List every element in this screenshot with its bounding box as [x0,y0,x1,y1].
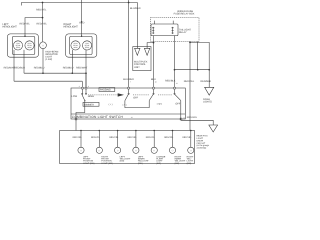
pin square low [81,87,83,89]
svg-text:RED/BLU: RED/BLU [34,67,45,70]
svg-text:RED/BLU: RED/BLU [14,67,25,70]
light switch 3 blade [175,94,181,100]
svg-text:LIGHT (5W): LIGHT (5W) [101,162,113,165]
lamp 7 right taillight [190,131,192,148]
pin square high [85,87,87,89]
wire: drop to LOW contact [81,81,83,93]
svg-text:OFF: OFF [133,97,138,100]
passing arrow [118,93,124,96]
svg-text:HEADLIGHT: HEADLIGHT [64,26,79,29]
wire: relay output BLU down [153,36,155,94]
svg-text:(5W): (5W) [120,160,125,163]
svg-text:(5W): (5W) [175,162,180,165]
rear fog arrow [209,125,218,132]
wire: vertical to high-beam indicator [42,3,44,42]
node: bus on relay RED/BLK wire [174,69,176,71]
light switch 2 contact [153,93,154,94]
svg-text:(5W): (5W) [156,162,161,165]
linkage dashed sw1-sw2 [133,94,149,96]
svg-text:BLU/RED: BLU/RED [123,78,134,81]
taillight assembly box [60,131,195,164]
node: high bus on right low wire [85,72,87,74]
under-dash fuse/relay box dashed outline [151,18,200,42]
lamp group [73,130,95,165]
svg-text:(5W): (5W) [187,162,192,165]
PASSING position label box [99,88,115,92]
svg-text:RELAY: RELAY [179,31,187,34]
wire: switch 3 common to rear fog exit [180,101,182,121]
svg-text:RED/YEL: RED/YEL [128,136,138,139]
pin square fog exit [180,118,182,120]
multiplex control unit box [133,47,151,71]
dash lights arrow [205,87,214,95]
dimmer switch: HIGH contact [85,93,86,94]
bulb: left low beam 55W [13,41,22,50]
svg-text:LOW: LOW [72,95,78,98]
lamp 1 left front position light [80,131,82,148]
left headlight bulb housing [12,36,34,54]
switch 1-2 common link [125,101,149,108]
svg-text:DIMMER: DIMMER [84,103,94,106]
wire: rear fog feed [181,120,213,125]
node: terminal on right headlight feed [81,21,82,22]
left headlight outer case [7,34,38,57]
svg-text:RED/WHT: RED/WHT [76,67,88,70]
pin squares on box top [75,87,182,120]
svg-text:LIGHT (5W): LIGHT (5W) [83,162,95,165]
wire: right low beam down [85,50,87,88]
dimmer switch: LOW contact [82,93,83,94]
node: indicator joins high bus [42,72,44,74]
wire: branch into multiplex receiver 2 [147,43,153,49]
pin square 10 [153,87,155,89]
node: branch to multiplex [153,42,155,44]
svg-text:RED/BLK: RED/BLK [165,79,176,82]
lamp: high-beam indicator light 1.4W [40,42,47,49]
svg-text:(1.4W): (1.4W) [45,58,52,61]
wire: lower distribution bus [175,69,210,71]
svg-text:RED/YEL: RED/YEL [20,22,31,25]
svg-text:COMBINATION LIGHT SWITCH: COMBINATION LIGHT SWITCH [72,115,124,119]
svg-text:FUSE/RELAY BOX: FUSE/RELAY BOX [174,13,195,16]
receiver triangle 1 [135,48,140,55]
svg-text:OFF: OFF [175,103,180,106]
receiver triangle 2 [144,48,149,55]
node: junction on RED/YEL feed [189,42,191,44]
pin square 7 [128,87,130,89]
right headlight outer case [66,34,97,57]
wire: left high beam down [23,50,25,73]
svg-text:LIGHT: LIGHT [45,56,52,59]
wire: indicator down [42,49,44,73]
relay: taillight relay body [151,24,178,36]
svg-text:( + ): ( + ) [109,103,113,106]
svg-text:HEADLIGHT: HEADLIGHT [3,26,18,29]
svg-text:BLU/RED: BLU/RED [130,7,141,10]
node: bus at dash lights column [208,69,210,71]
passing linkage dashed [88,94,118,96]
svg-text:BLU: BLU [151,78,156,81]
lamp 6 right inner taillight [172,131,174,148]
svg-text:RED/YEL: RED/YEL [73,136,83,139]
svg-text:RED/YEL: RED/YEL [146,136,156,139]
svg-text:RED/YEL: RED/YEL [37,22,48,25]
node: right high joins high bus [71,72,73,74]
wire: BLU/RED feed from top to switch pin 7 [128,0,130,93]
wire: relay output RED/BLK down to switch pin 13 [174,36,176,94]
bulb: right low beam 55W [82,41,91,50]
svg-text:LIGHTS: LIGHTS [203,101,212,104]
relay top pin stubs [155,21,174,24]
pin square lamp exit [75,118,77,120]
wire: low beam bus [14,80,82,82]
svg-text:PASSING: PASSING [100,89,111,92]
bulb: left high beam 60W [25,41,34,50]
svg-text:HIGH: HIGH [88,95,94,98]
lamp 4 left inner taillight [135,131,137,148]
svg-text:assembly): assembly) [197,147,207,150]
light switch 1 contact [128,93,129,94]
wire: right headlight feed from top [81,0,83,36]
light switch 1 blade [125,94,128,100]
wire: branch to multiplex control unit [129,3,138,49]
svg-text:RED/BLU: RED/BLU [63,67,74,70]
wire: top feed horizontal RED/YEL with hook at left [22,3,129,6]
wire: dimmer common to lamps exit [76,101,85,131]
svg-text:RED/YEL: RED/YEL [164,136,174,139]
lamp 3 left taillight [117,131,119,148]
combination light switch box [71,88,185,119]
svg-text:HIGH-BEAM: HIGH-BEAM [45,50,58,53]
lamp 5 license plate light [153,131,155,148]
node: junction indicator/headlight branch [42,17,44,19]
svg-text:RED/YEL: RED/YEL [36,9,47,12]
relay right pin bar [172,27,174,34]
node: bus at fuse leg [197,69,199,71]
light switch 2 blade [149,94,153,100]
relay left pin bar [152,27,154,34]
svg-text:RED/YEL: RED/YEL [91,136,101,139]
svg-text:RED/BLK: RED/BLK [201,80,212,83]
wire: horizontal to dash lights column [190,42,209,87]
DIMMER position label box [83,102,99,106]
svg-text:(5W): (5W) [138,162,143,165]
wire: branch to left headlight common [25,18,43,37]
node: junction at x=42.5 on top feed [42,2,44,4]
svg-text:(+)(+): (+)(+) [157,103,163,106]
lamp 2 right front position light [98,131,100,148]
pin square 13 [174,87,176,89]
svg-text:RED/YEL: RED/YEL [109,136,119,139]
wire: high beam bus [24,72,86,74]
svg-text:INDICATOR: INDICATOR [45,53,58,56]
svg-text:RED/YEL: RED/YEL [182,136,192,139]
switch title separator [71,113,185,115]
light switch 3 contact [174,93,175,94]
bulb: right high beam 60W [71,41,80,50]
wire: fuse box feed RED/YEL down to taillight bus [189,42,191,131]
right headlight bulb housing [70,36,92,54]
wire: drop to HIGH contact [85,73,87,93]
svg-text:RED/YEL: RED/YEL [184,80,195,83]
wire: right high beam down [71,50,73,73]
wire: fuse box leg to lower bus [197,42,199,70]
linkage dashed sw2-sw3 [158,94,172,96]
svg-text:RED: RED [79,22,84,25]
svg-text:UNIT: UNIT [134,66,140,69]
node: junction top BLU/RED [128,2,130,4]
dimmer switch blade [82,94,85,100]
wire: left low beam down [13,50,15,81]
svg-text:RED/GRN: RED/GRN [187,116,197,119]
